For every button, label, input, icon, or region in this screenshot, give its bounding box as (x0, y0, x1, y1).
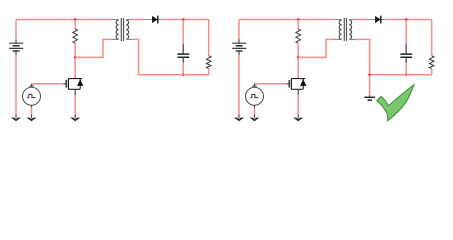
capacitor C2 (400, 20, 412, 75)
wire bottom output rail right (370, 74, 432, 76)
ground mosfet source (70, 115, 80, 122)
load resistor R2 (206, 20, 211, 75)
mosfet Q1 (64, 78, 84, 96)
wire top rail left (right ckt) (239, 19, 334, 21)
transformer T1 (111, 18, 132, 41)
battery V1 (9, 20, 23, 116)
diode D2 (368, 16, 387, 24)
wire diode to output top rail right (387, 19, 432, 21)
node capacitor bottom right (405, 74, 408, 77)
resistor R3 (296, 20, 301, 58)
wire gate (32, 83, 64, 85)
resistor R1 (73, 20, 78, 58)
node secondary ground junction (368, 74, 371, 77)
node drain junction (74, 56, 77, 59)
ground battery right (234, 115, 244, 122)
battery V2 (232, 20, 246, 116)
wire drain node to mosfet (74, 57, 76, 77)
wire secondary bottom to output rail (132, 39, 139, 74)
ground secondary earth (364, 95, 375, 100)
ground pulse source (26, 115, 36, 122)
ground battery (11, 115, 21, 122)
ground pulse source right (249, 115, 259, 122)
checkmark correct (377, 85, 414, 121)
node capacitor top right (405, 18, 408, 21)
node resistor top (74, 18, 77, 21)
diode D1 (145, 16, 164, 24)
wire diode to output top rail (164, 19, 209, 21)
wire secondary ground drop (369, 75, 371, 95)
wire drain node to primary bottom right (298, 39, 334, 57)
node resistor top right (297, 18, 300, 21)
node drain junction right (297, 56, 300, 59)
ground mosfet source right (293, 115, 303, 122)
wire source down right (297, 95, 299, 115)
wire source down (74, 95, 76, 115)
wire secondary top to diode right (355, 19, 368, 21)
pulse source VG1 (23, 84, 41, 115)
node capacitor bottom (182, 74, 185, 77)
wire drain node to mosfet right (297, 57, 299, 77)
wire secondary bottom to output rail right (355, 39, 370, 74)
transformer T2 (334, 18, 355, 41)
mosfet Q2 (287, 78, 307, 96)
wire gate right (255, 83, 287, 85)
pulse source VG2 (246, 84, 264, 115)
wire drain node to primary bottom (75, 39, 111, 57)
load resistor R4 (429, 20, 434, 75)
wire top rail left (16, 19, 111, 21)
capacitor C1 (177, 20, 189, 75)
wire bottom output rail (139, 74, 209, 76)
node capacitor top (182, 18, 185, 21)
wire secondary top to diode (132, 19, 145, 21)
